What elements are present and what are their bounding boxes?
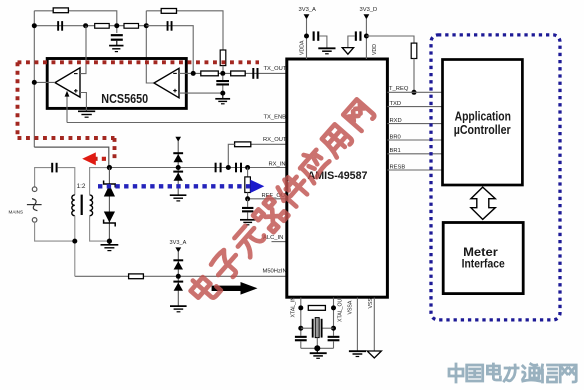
ground ladder shunt (109, 46, 123, 52)
wire feedback1 left vertical (33, 11, 35, 147)
resistor xtal feedback (308, 306, 325, 311)
diode clamp D4 (173, 171, 183, 181)
wire VDD supply (365, 19, 367, 60)
IC AMIS-49587 box (287, 59, 388, 297)
wire blue dotted RX path (98, 184, 250, 188)
box Application uController (443, 60, 523, 186)
wire opamp2 inverting input (179, 72, 193, 74)
arrow signal direction (212, 282, 258, 295)
svg-text:RX_OUT: RX_OUT (263, 137, 287, 143)
node terminal mains top (32, 187, 37, 192)
transformer T1 (72, 195, 93, 216)
resistor feedback2 vertical (220, 50, 226, 66)
wire opamp2 noninverting input (179, 92, 223, 94)
resistor mains rail (129, 274, 144, 279)
diode zener D1 (104, 181, 116, 197)
svg-text:RXD: RXD (390, 118, 402, 124)
svg-text:µController: µController (454, 122, 511, 137)
svg-text:NCS5650: NCS5650 (101, 91, 148, 106)
box Meter Interface (443, 223, 523, 294)
ground clamp lower (170, 306, 187, 312)
wire VSSA (356, 298, 358, 351)
wire TX output line (193, 72, 287, 74)
wire feedback2 cap row (146, 26, 193, 74)
resistor ladder2 (124, 24, 139, 29)
wire VDDA supply (306, 19, 308, 60)
ground VSS open triangle (367, 351, 381, 358)
wire clamp column upper (177, 141, 179, 195)
wire red dotted TX path tail (95, 157, 107, 161)
svg-text:Interface: Interface (462, 257, 505, 271)
capacitor RX coupling2 (235, 163, 242, 173)
wire opamp1 inverting input (80, 26, 86, 74)
capacitor mains coupling (51, 163, 57, 173)
wire secondary bottom (90, 216, 110, 241)
wire opamp1 output (34, 81, 55, 83)
node junction VDDA (304, 34, 309, 39)
diode clamp lower supply arrow (175, 247, 181, 252)
wire M50HzIN rail (75, 275, 287, 277)
capacitor xtal left (295, 336, 307, 349)
supply arrow 3V3_D (364, 14, 370, 19)
svg-text:MAINS: MAINS (9, 210, 24, 215)
wire blue dotted module boundary (431, 35, 560, 320)
wire NCS output to transformer node (34, 147, 109, 167)
arrow red TX into transformer (82, 152, 96, 165)
wire feedback2 vertical resistor lead (222, 66, 224, 74)
op-amp U1B (154, 68, 179, 98)
svg-text:VDD: VDD (372, 44, 378, 55)
svg-text:TXD: TXD (390, 101, 402, 107)
wire ALC_IN stub (272, 241, 288, 243)
node junction opamp1 inverting (83, 23, 88, 28)
wire RX_OUT line (251, 143, 287, 145)
node junction ladder mid (114, 23, 119, 28)
node junction clamp RX line (176, 165, 181, 170)
ground opamp1 input (78, 111, 95, 117)
node junction RX mid1 (226, 165, 231, 170)
node junction RX mid2 (245, 165, 250, 170)
svg-text:XTAL_OUT: XTAL_OUT (338, 295, 344, 322)
wire zener stack (108, 168, 110, 242)
resistor REF vertical (245, 168, 251, 199)
svg-text:3V3_D: 3V3_D (360, 7, 378, 13)
svg-text:TX_OUT: TX_OUT (264, 66, 287, 72)
wire feedback2 top (146, 11, 223, 50)
svg-text:VDDA: VDDA (300, 40, 306, 55)
capacitor RX coupling1 (215, 163, 222, 173)
resistor ladder1 (95, 24, 110, 29)
node junction TX mid (220, 71, 225, 76)
ground xtal (310, 348, 327, 358)
wire pullup to T_REQ (413, 59, 415, 93)
ground VDDA cap (318, 48, 335, 54)
node junction TX opamp2 out (191, 71, 196, 76)
wire clamp column lower (177, 252, 179, 306)
node junction xtal in top (298, 305, 303, 310)
wire opamp1 noninverting input (80, 93, 86, 111)
wire pin TXD (387, 106, 442, 108)
arrow blue RX into chip (250, 180, 264, 193)
watermark red diagonal (187, 97, 376, 306)
wire RX_IN line (109, 167, 287, 169)
svg-text:VSS: VSS (368, 298, 374, 309)
wire TX_ENB enable arrow (65, 91, 70, 123)
AC source mains symbol (27, 199, 42, 211)
wire primary bottom to rail (74, 216, 76, 277)
ground REF shunt (240, 220, 255, 225)
wire pin BR0 (387, 139, 442, 141)
resistor feedback1 top (53, 8, 68, 13)
node junction VDD (364, 34, 369, 39)
NCS5650 box (47, 59, 186, 109)
node junction xtal ground (314, 345, 320, 351)
svg-text:BR1: BR1 (390, 148, 401, 154)
svg-text:1:2: 1:2 (77, 183, 86, 190)
svg-text:M50HzIN: M50HzIN (263, 268, 287, 274)
svg-text:RESB: RESB (390, 164, 406, 170)
ground VSSA (349, 351, 366, 356)
resistor TX series1 (201, 71, 219, 76)
capacitor xtal right (328, 336, 340, 349)
wire feedback1 middle row (34, 25, 146, 27)
wire red dotted TX path bottom (18, 136, 115, 140)
wire pin RXD (387, 123, 442, 125)
diode clamp D5 (173, 259, 183, 269)
crystal X1 (301, 318, 334, 349)
ground TX shunt (215, 93, 230, 104)
svg-text:3V3_A: 3V3_A (170, 240, 187, 246)
op-amp U1A (55, 68, 80, 97)
ground zener stack (101, 241, 119, 251)
svg-text:BR0: BR0 (390, 134, 401, 140)
resistor T_REQ pullup (411, 43, 417, 58)
svg-text:T_REQ: T_REQ (389, 86, 409, 92)
wire pin BR1 (387, 153, 442, 155)
node terminal mains bottom (32, 218, 37, 223)
capacitor feedback1 (57, 21, 63, 31)
resistor feedback2 top (161, 9, 176, 14)
wire pin RESB (387, 169, 442, 171)
ground clamp upper (170, 195, 187, 201)
supply arrow 3V3_A (304, 14, 310, 19)
wire VSS (373, 298, 375, 352)
svg-text:VSSA: VSSA (348, 300, 354, 314)
node junction feedback2 cap (144, 23, 149, 28)
capacitor VDD decoupling (348, 31, 362, 47)
wire mains bottom loop (35, 222, 75, 241)
node junction REF_OUT (245, 196, 250, 201)
ground VDD cap open triangle (342, 48, 353, 55)
svg-text:3V3_A: 3V3_A (299, 7, 317, 13)
capacitor TX coupling (252, 68, 258, 79)
capacitor feedback2 (167, 21, 173, 31)
wire pin T_REQ (387, 91, 442, 93)
capacitor REF shunt (242, 199, 253, 220)
wire xtal ground bus (301, 347, 334, 349)
svg-text:XTAL_IN: XTAL_IN (291, 297, 297, 318)
capacitor ladder shunt (111, 34, 123, 45)
node junction feedback1 left (32, 23, 37, 28)
diode zener D2 (104, 212, 116, 227)
wire TX_ENB line (67, 122, 287, 124)
svg-text:RX_IN: RX_IN (269, 161, 286, 167)
wire secondary top (90, 168, 109, 195)
arrow bidirectional bus (471, 187, 495, 219)
watermark site name bottom right (449, 364, 576, 382)
wire RX_OUT to RX_IN (228, 144, 234, 167)
wire feedback1 top (34, 11, 117, 33)
node junction opamp1 output (32, 80, 37, 85)
diode clamp D6 (173, 281, 183, 291)
svg-text:TX_ENB: TX_ENB (264, 115, 287, 121)
resistor RX_OUT series (235, 142, 251, 147)
node junction zener bottom (107, 239, 112, 244)
node junction xtal in mid (298, 326, 303, 331)
node junction T_REQ (412, 90, 417, 95)
wire red dotted TX path left (16, 62, 20, 138)
node junction TX shunt (220, 91, 225, 96)
node junction secondary RX (107, 165, 112, 170)
node junction xtal out mid (331, 326, 336, 331)
node junction primary bottom (72, 239, 77, 244)
wire XTAL_IN (300, 298, 302, 336)
node junction xtal out top (331, 305, 336, 310)
wire red dotted TX path top (18, 60, 260, 64)
wire cap to primary (58, 168, 75, 195)
capacitor VDDA decoupling (313, 31, 327, 48)
wire red dotted TX path drop (113, 138, 117, 159)
diode clamp D3 (173, 152, 183, 162)
capacitor TX shunt (216, 76, 229, 93)
wire XTAL_OUT (333, 298, 335, 336)
wire REF_OUT line (248, 198, 287, 200)
diode clamp column upper supply arrow (175, 137, 181, 142)
wire VDD to pullup (366, 36, 414, 43)
wire feedback2 left vertical (146, 11, 154, 83)
node junction clamp rail (176, 274, 181, 279)
resistor TX series2 (231, 71, 246, 76)
wire mains top loop (35, 168, 51, 187)
